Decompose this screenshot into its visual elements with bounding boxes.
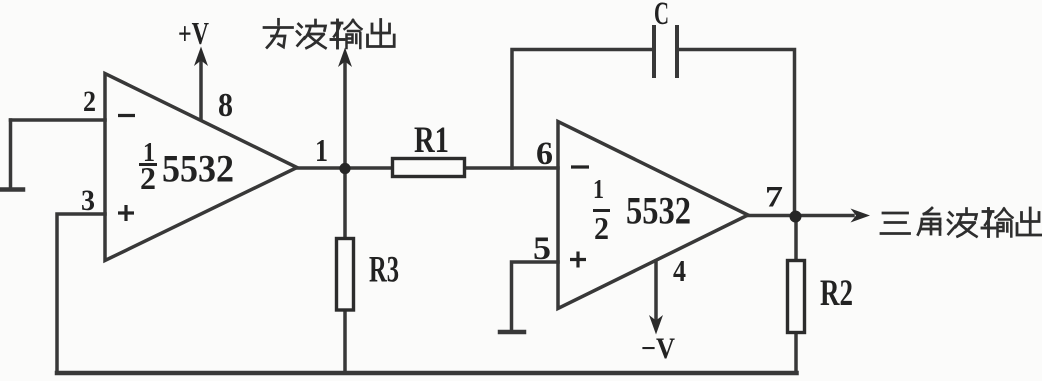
svg-text:R2: R2: [820, 273, 853, 314]
svg-text:1: 1: [593, 174, 604, 204]
svg-text:R3: R3: [369, 250, 399, 291]
svg-text:2: 2: [83, 85, 96, 118]
svg-text:5532: 5532: [626, 190, 691, 233]
svg-text:C: C: [654, 0, 669, 32]
svg-text:2: 2: [594, 210, 609, 246]
svg-text:5: 5: [533, 231, 551, 267]
svg-text:7: 7: [765, 181, 783, 214]
svg-text:4: 4: [673, 253, 686, 288]
svg-text:−V: −V: [641, 332, 675, 365]
svg-text:6: 6: [536, 136, 553, 172]
svg-text:8: 8: [218, 87, 233, 124]
svg-text:5532: 5532: [162, 148, 234, 191]
svg-text:3: 3: [81, 184, 95, 217]
svg-text:R1: R1: [414, 120, 449, 161]
svg-text:+V: +V: [178, 15, 209, 51]
svg-text:1: 1: [315, 132, 328, 168]
